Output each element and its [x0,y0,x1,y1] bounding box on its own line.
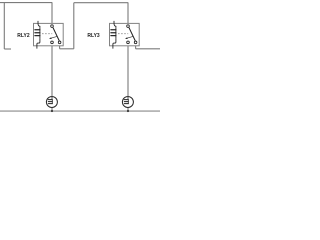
relay RLY3 NC contact pin [134,41,137,44]
wire relay 2 output to right edge [136,48,160,50]
relay RLY3 coil bottom lead [113,38,116,48]
relay RLY2 actuation dashed link [42,33,52,35]
relay RLY3 switch blade [129,28,135,41]
relay RLY2 actuation arrow [51,36,57,38]
wire relay 1 NO pin to lamp L1 [51,44,53,97]
svg-text:RLY3: RLY3 [87,33,99,39]
relay RLY2 switch blade [53,28,59,41]
junction lamp L2 / bottom rail [127,110,129,112]
relay RLY2 common pin [51,25,54,28]
relay RLY3 common pin [127,25,130,28]
wire from rail to relay 1 common pin [51,3,53,25]
lamp L2 filament [124,100,128,104]
wire left vertical [3,3,5,49]
relay RLY2 coil loops [35,30,40,36]
lamp L2 [122,97,133,108]
relay RLY2 coil bottom lead [37,38,40,48]
svg-text:RLY2: RLY2 [17,33,29,39]
wire left stub [4,48,11,50]
wire from rail to relay 2 common pin [127,3,129,25]
relay RLY3 body [110,23,140,45]
relay RLY2 NC contact pin [58,41,61,44]
relay RLY3 label [87,33,99,39]
relay RLY3 NO contact pin [127,41,130,44]
wire relay 1 NC pin down [59,44,61,49]
relay RLY2 coil core line [39,27,41,38]
wire top rail circuit 1 [0,2,52,4]
wire relay 2 NO pin to lamp L2 [127,44,129,97]
wire lamp L1 to bottom rail [51,107,53,111]
wire top rail circuit 2 [74,2,129,4]
relay RLY2 coil top lead [38,21,40,28]
wire lamp L2 to bottom rail [127,107,129,111]
wire bottom rail [0,110,160,112]
lamp L1 filament [48,100,52,104]
wire relay 2 NC pin down [135,44,137,49]
relay RLY3 coil top lead [114,21,116,28]
relay RLY3 coil core line [115,27,117,38]
relay RLY3 coil loops [111,30,116,36]
wire relay 1 output to circuit 2 riser [60,48,74,50]
junction lamp L1 / bottom rail [51,110,53,112]
lamp L1 [46,97,57,108]
wire circuit 2 riser [73,3,75,49]
relay RLY2 NO contact pin [51,41,54,44]
relay RLY2 body [34,23,64,45]
relay RLY3 actuation dashed link [118,33,128,35]
relay RLY2 label [17,33,29,39]
relay RLY3 actuation arrow [127,36,133,38]
